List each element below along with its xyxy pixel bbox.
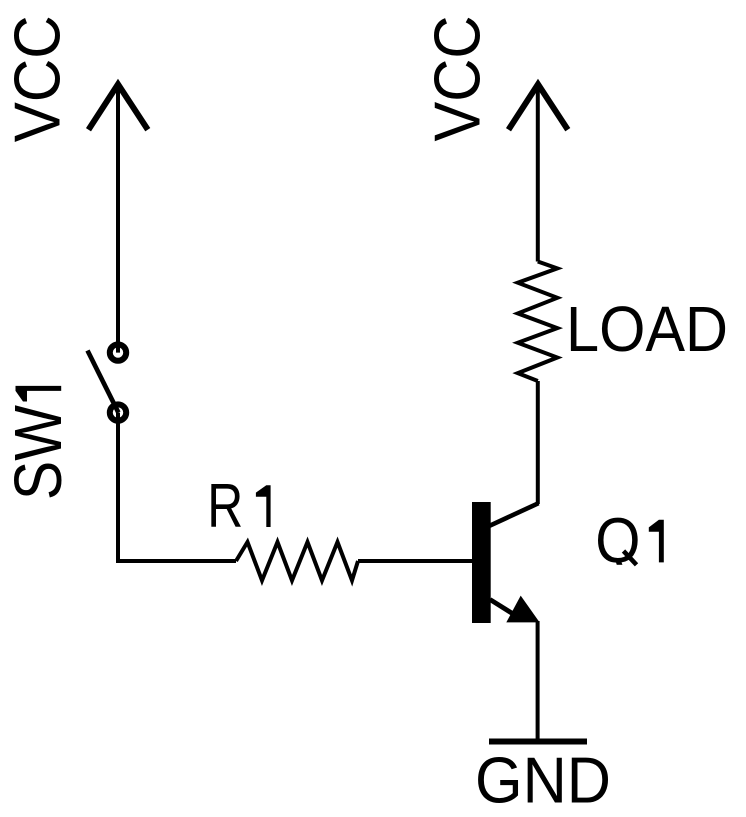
wire: LOAD up to right VCC arrow <box>536 84 540 262</box>
switch SW1 lever <box>88 351 119 413</box>
ground bar <box>489 739 587 745</box>
transistor Q1 collector diagonal <box>490 503 539 526</box>
power VCC (left) arrow symbol <box>89 84 148 130</box>
white patch trimming Q1 descender <box>606 565 654 577</box>
transistor Q1 emitter diagonal <box>490 600 514 615</box>
wire: left VCC arrow shaft down to switch top terminal <box>116 84 120 353</box>
svg-text:VCC: VCC <box>1 15 74 142</box>
svg-text:VCC: VCC <box>420 16 493 142</box>
wire: collector up to LOAD <box>536 381 540 504</box>
svg-text:GND: GND <box>475 744 611 817</box>
switch SW1 top terminal circle <box>110 344 126 360</box>
switch SW1 label <box>1 386 76 500</box>
transistor Q1 base bar <box>472 502 491 623</box>
wire: emitter down to ground <box>536 621 540 739</box>
svg-text:R: R <box>207 472 243 541</box>
switch SW1 bottom terminal circle <box>110 404 126 420</box>
wire: switch bottom down and right to R1 <box>118 413 236 561</box>
resistor R1 zigzag <box>236 542 358 581</box>
Q1 tail stroke <box>624 551 637 565</box>
svg-text:SW: SW <box>1 404 76 500</box>
svg-text:LOAD: LOAD <box>566 293 728 365</box>
transistor Q1 emitter arrowhead <box>506 596 539 623</box>
wire: R1 to Q1 base <box>358 559 472 563</box>
power VCC (right) arrow symbol <box>509 84 568 130</box>
resistor LOAD zigzag <box>518 262 558 382</box>
